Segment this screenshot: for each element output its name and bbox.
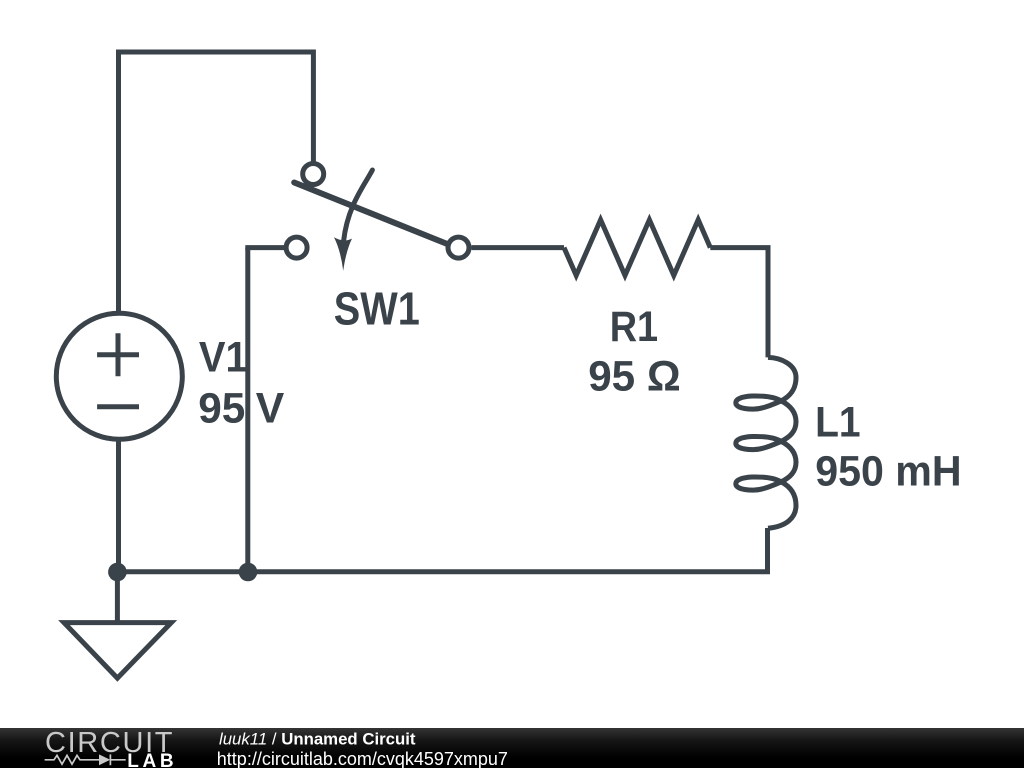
SW1 blade (294, 183, 447, 245)
wire top rail from V1 top to switch SW1 top terminal (119, 52, 314, 313)
svg-text:950 mH: 950 mH (815, 448, 961, 496)
svg-text:95 Ω: 95 Ω (588, 352, 681, 400)
footer bar (0, 728, 1024, 768)
svg-text:LAB: LAB (127, 751, 173, 768)
wire bottom rail and right corner (117, 528, 767, 572)
inductor L1 (736, 357, 796, 528)
wire vertical from bend down to bottom node (245, 248, 250, 572)
node junction dot (switch branch) (239, 563, 258, 582)
SW1 actuation arrow arc (344, 170, 373, 241)
svg-text:V: V (256, 384, 285, 432)
svg-text:R1: R1 (610, 303, 658, 351)
wire from SW1 lower-left terminal to left bend (245, 245, 284, 250)
node junction dot (ground node) (108, 563, 127, 582)
SW1 top terminal (303, 164, 324, 185)
footer logo resistor-diode glyph (45, 754, 126, 765)
svg-text:95: 95 (198, 384, 245, 432)
resistor R1 (564, 220, 710, 276)
SW1 right terminal (448, 237, 469, 258)
svg-text:L1: L1 (815, 399, 861, 447)
svg-text:V1: V1 (199, 333, 248, 381)
svg-text:http://circuitlab.com/cvqk4597: http://circuitlab.com/cvqk4597xmpu7 (217, 749, 508, 768)
wire from R1 right to inductor top (710, 248, 768, 358)
svg-text:luuk11 / Unnamed Circuit: luuk11 / Unnamed Circuit (219, 730, 416, 749)
svg-text:SW1: SW1 (334, 282, 420, 334)
wire V1 bottom to ground node (116, 440, 121, 572)
ground (64, 572, 171, 678)
SW1 left terminal (286, 237, 307, 258)
SW1 arrow head (334, 237, 352, 270)
switch SW1 (286, 164, 469, 271)
voltage source V1 (56, 313, 182, 439)
wire from SW1 right terminal to resistor R1 (472, 245, 565, 250)
